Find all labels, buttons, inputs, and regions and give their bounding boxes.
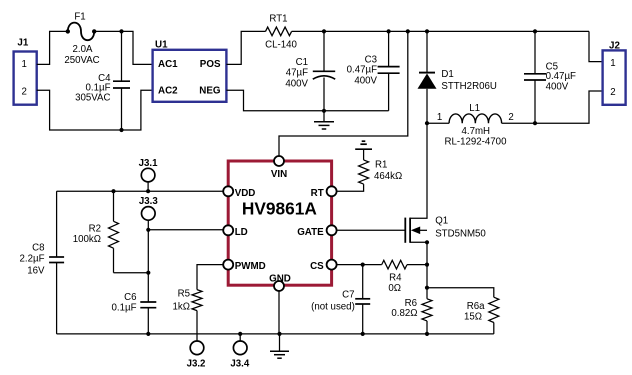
svg-text:J3.4: J3.4 (230, 359, 249, 370)
svg-text:J3.2: J3.2 (187, 359, 206, 370)
pin RT (327, 186, 337, 196)
svg-text:CS: CS (310, 261, 324, 272)
svg-text:1: 1 (437, 112, 442, 123)
svg-text:PWMD: PWMD (235, 261, 266, 272)
svg-text:CL-140: CL-140 (265, 40, 297, 51)
capacitor C6 (112, 230, 157, 334)
svg-text:J1: J1 (17, 38, 28, 49)
wire U1 NEG rail (226, 90, 388, 111)
wire rail to J2-1 (589, 31, 603, 61)
resistor R1 (359, 160, 403, 185)
svg-text:15Ω: 15Ω (464, 311, 482, 322)
pin VIN (274, 156, 284, 166)
svg-text:D1: D1 (441, 69, 453, 80)
pin PWMD (223, 260, 233, 270)
pin LD (223, 225, 233, 235)
pin CS (327, 260, 337, 270)
pin VDD (223, 186, 233, 196)
junction C1 top (322, 29, 326, 33)
svg-text:Q1: Q1 (435, 216, 448, 227)
wire LD (148, 229, 223, 231)
wire top rail (292, 30, 589, 32)
wire RT to R1 (336, 184, 363, 191)
wire CS (336, 263, 381, 267)
ground NEG rail (314, 111, 334, 129)
connector J3.2 (187, 341, 206, 370)
fuse F1 (66, 12, 97, 41)
wire U1 POS to RT1 (226, 31, 265, 64)
connector J2 (603, 40, 626, 105)
wire bottom rail (57, 332, 494, 336)
wire VDD rail (57, 190, 224, 192)
ground R1 top (inverted) (355, 141, 372, 160)
svg-text:AC1: AC1 (158, 59, 178, 70)
svg-text:C6: C6 (124, 292, 136, 303)
svg-text:400V: 400V (354, 76, 377, 87)
svg-text:0.82Ω: 0.82Ω (391, 308, 417, 319)
resistor R2 (73, 189, 149, 273)
wire to J2-2 (535, 91, 603, 123)
IC U2 HV9861A (228, 161, 331, 285)
svg-text:4.7mH: 4.7mH (462, 126, 491, 137)
svg-text:C7: C7 (342, 289, 354, 300)
connector J3.4 (230, 332, 249, 370)
svg-text:2.2µF: 2.2µF (20, 254, 45, 265)
junction C5 top (533, 29, 537, 33)
pin GND (274, 281, 284, 291)
svg-text:VIN: VIN (271, 169, 287, 180)
svg-text:305VAC: 305VAC (75, 93, 110, 104)
svg-text:J3.3: J3.3 (139, 196, 158, 207)
svg-text:C8: C8 (32, 243, 44, 254)
svg-text:STTH2R06U: STTH2R06U (441, 81, 496, 92)
svg-text:0Ω: 0Ω (388, 283, 401, 294)
svg-text:POS: POS (200, 59, 221, 70)
svg-text:RT1: RT1 (269, 14, 287, 25)
svg-text:R2: R2 (89, 224, 101, 235)
wire rail to VIN (279, 31, 408, 156)
transistor Q1 (405, 123, 486, 244)
wire PWMD (197, 265, 223, 290)
svg-text:R5: R5 (178, 288, 190, 299)
svg-text:R1: R1 (375, 160, 387, 171)
junction VIN drop (406, 29, 410, 33)
svg-text:2: 2 (610, 87, 615, 98)
resistor R6a (427, 288, 499, 334)
svg-text:400V: 400V (285, 78, 308, 89)
pin GATE (327, 225, 337, 235)
svg-text:(not used): (not used) (311, 302, 355, 313)
svg-text:C1: C1 (296, 57, 308, 68)
svg-text:VDD: VDD (235, 188, 256, 199)
svg-text:100kΩ: 100kΩ (73, 234, 101, 245)
junction D1 top (425, 29, 429, 33)
svg-text:J2: J2 (609, 40, 620, 51)
svg-text:1: 1 (610, 58, 615, 69)
svg-text:2: 2 (508, 112, 513, 123)
ground main (270, 334, 289, 358)
svg-text:RL-1292-4700: RL-1292-4700 (445, 137, 508, 148)
connector J1 (14, 38, 37, 105)
resistor R4 (382, 260, 429, 294)
svg-text:1kΩ: 1kΩ (173, 301, 190, 312)
capacitor C4 (75, 31, 130, 130)
svg-text:F1: F1 (74, 12, 85, 23)
svg-text:L1: L1 (469, 103, 480, 114)
resistor R5 (173, 288, 202, 341)
thermistor RT1 (265, 14, 297, 51)
connector J3.1 (139, 158, 158, 193)
svg-text:2.0A: 2.0A (73, 44, 93, 55)
svg-text:RT: RT (311, 188, 324, 199)
svg-text:STD5NM50: STD5NM50 (435, 228, 486, 239)
capacitor C7 (311, 265, 370, 336)
capacitor C5 (524, 31, 576, 125)
svg-text:2: 2 (22, 86, 27, 97)
inductor L1 (427, 103, 535, 148)
capacitor C8 (20, 191, 65, 334)
svg-text:250VAC: 250VAC (64, 55, 99, 66)
svg-text:GATE: GATE (297, 227, 324, 238)
capacitor C3 (347, 31, 400, 110)
svg-text:464kΩ: 464kΩ (374, 171, 402, 182)
svg-text:1: 1 (22, 59, 27, 70)
capacitor C1 (285, 31, 335, 113)
svg-text:AC2: AC2 (158, 86, 178, 97)
wire J1-2 to U1 AC2 (37, 90, 153, 132)
wire F1 to U1 AC1 (94, 29, 152, 64)
diode D1 (418, 31, 497, 123)
label F1 value (64, 44, 99, 66)
resistor R6 (391, 298, 432, 336)
connector J3.3 (139, 196, 158, 232)
svg-text:NEG: NEG (199, 86, 221, 97)
wire GND (277, 291, 281, 336)
svg-text:LD: LD (235, 227, 248, 238)
bridge U1 (153, 40, 227, 102)
wire GATE to Q1 (336, 229, 404, 231)
svg-text:400V: 400V (546, 82, 569, 93)
svg-text:HV9861A: HV9861A (242, 199, 317, 219)
svg-text:16V: 16V (27, 266, 45, 277)
svg-text:U1: U1 (155, 40, 168, 51)
junction C3 top (387, 29, 391, 33)
wire J1-1 to F1 (37, 31, 68, 64)
svg-text:0.1µF: 0.1µF (112, 302, 137, 313)
wire Q1 source to R6 (425, 242, 429, 298)
node SW junction (425, 121, 429, 125)
svg-text:0.47µF: 0.47µF (347, 64, 377, 75)
svg-text:0.47µF: 0.47µF (546, 71, 576, 82)
svg-text:47µF: 47µF (286, 67, 308, 78)
